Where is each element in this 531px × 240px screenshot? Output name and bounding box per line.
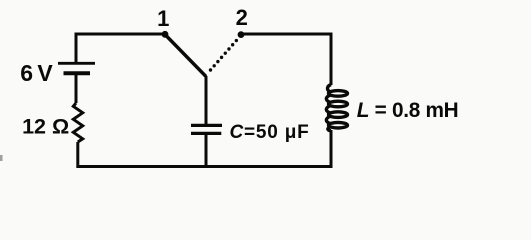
svg-text:C=50 μF: C=50 μF — [230, 122, 310, 143]
battery plate short — [64, 71, 91, 75]
svg-text:12 Ω: 12 Ω — [22, 115, 69, 139]
node 2 dot — [238, 31, 245, 38]
switch arm (solid, thrown to 1) — [165, 35, 206, 77]
svg-text:6 V: 6 V — [20, 60, 53, 86]
wire capacitor to bottom — [205, 135, 208, 167]
node 1 dot — [162, 31, 169, 38]
wire top-right segment — [241, 34, 331, 85]
wire top-left segment — [76, 34, 165, 62]
wire switch pole down to capacitor — [205, 76, 208, 124]
svg-text:2: 2 — [236, 5, 248, 30]
resistor zigzag R 12ohm — [73, 103, 82, 142]
inductor coil L — [326, 85, 347, 131]
svg-text:1: 1 — [157, 6, 169, 31]
wire left lower + bottom + right lower — [78, 130, 331, 167]
scan artifact left edge — [0, 155, 3, 161]
switch dotted arm to 2 — [211, 38, 240, 71]
wire battery to resistor — [75, 74, 78, 103]
capacitor plate bottom — [191, 132, 221, 135]
svg-text:L = 0.8 mH: L = 0.8 mH — [357, 99, 459, 122]
battery plate long — [58, 62, 95, 65]
capacitor plate top — [191, 124, 222, 127]
